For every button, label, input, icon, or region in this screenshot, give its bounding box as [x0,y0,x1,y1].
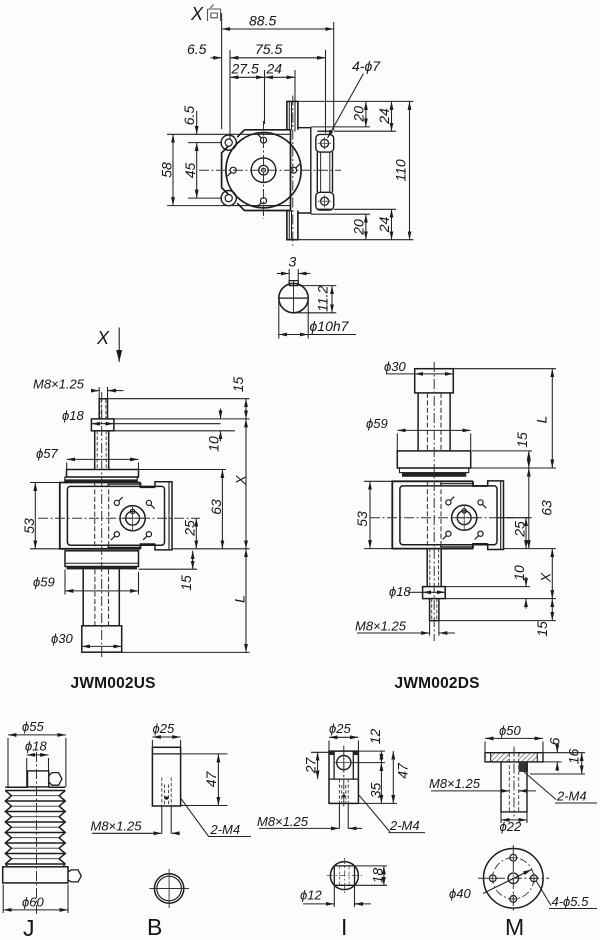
dim X [551,549,553,599]
threaded bore hidden [162,778,171,807]
dim 53 [34,483,36,549]
center hole [259,165,269,175]
gearbox body outline [60,483,155,549]
svg-text:24: 24 [376,217,392,234]
body face plate [67,486,164,545]
hub stem phi22 [501,762,527,812]
svg-text:16: 16 [566,749,582,765]
svg-text:M8×1.25: M8×1.25 [91,819,143,834]
svg-text:X: X [233,475,249,486]
dim 58 [172,134,174,205]
dim 6.5 vertical [196,111,198,134]
threaded bore hidden [339,779,348,803]
centerlines [199,96,341,246]
svg-text:25: 25 [512,521,528,538]
svg-text:24: 24 [266,61,283,77]
dim 15 top [245,399,247,419]
dim 6 [556,744,558,753]
dim phi10h7 [278,300,280,339]
dim phi25 [329,736,358,738]
dim phi60 [3,909,68,911]
svg-text:15: 15 [534,621,550,637]
dim 15 ring [528,451,530,468]
svg-text:2-M4: 2-M4 [556,789,587,804]
body face plate [400,486,497,545]
extension lines [453,368,556,370]
gearbox body outline [392,481,487,548]
dim phi12 [333,886,335,907]
US texts [21,377,249,693]
dim 3 [288,269,290,281]
svg-text:L: L [232,595,248,603]
center hole [508,873,519,884]
svg-text:88.5: 88.5 [249,13,276,29]
block phi25 [329,751,358,803]
svg-text:11.2: 11.2 [315,285,331,311]
svg-text:ϕ40: ϕ40 [449,886,471,901]
cover screws [227,134,300,207]
svg-text:110: 110 [393,159,409,182]
svg-text:27: 27 [303,757,319,775]
svg-text:6: 6 [547,737,563,745]
svg-text:M8×1.25: M8×1.25 [429,776,481,791]
base ring phi59 [65,551,139,567]
dim M8x1.25 [98,387,100,399]
svg-text:ϕ18: ϕ18 [62,408,84,423]
DS texts [354,359,555,692]
dim phi30 [386,373,415,375]
dim 27 [317,752,319,779]
svg-text:35: 35 [367,783,383,799]
flange edge lines [222,133,291,135]
dim phi18 [27,754,49,756]
svg-text:3: 3 [289,254,297,270]
end cap phi30 [82,626,122,652]
screw hidden in body [95,482,109,549]
screw below body [427,549,441,587]
dim 10 [220,409,222,419]
dim 63 [528,468,530,549]
svg-text:I: I [341,914,347,940]
dim phi50 [485,737,543,739]
svg-text:15: 15 [178,575,194,591]
svg-text:10: 10 [206,436,222,452]
bellows [5,787,65,864]
svg-text:ϕ30: ϕ30 [384,359,406,374]
gear cover circle [226,133,301,208]
dim L [551,369,553,468]
flange bolt holes [321,139,329,147]
svg-text:J: J [23,915,35,940]
svg-text:ϕ59: ϕ59 [366,416,388,431]
screw tip M8 [99,399,107,419]
svg-text:M: M [505,914,524,940]
worm shaft boss [120,506,145,531]
dim 110 [409,101,411,239]
svg-text:ϕ18: ϕ18 [389,584,411,599]
svg-text:20: 20 [351,106,367,123]
worm shaft top [287,101,298,129]
mid circle [251,158,276,183]
svg-text:24: 24 [376,108,392,125]
svg-text:X: X [190,4,204,24]
keyway slot [289,281,298,286]
svg-text:4-ϕ5.5: 4-ϕ5.5 [552,894,590,909]
dim 20 top [365,101,367,127]
svg-text:ϕ55: ϕ55 [22,719,44,734]
worm flange column [155,482,172,550]
dim M8x1.25 [161,806,163,833]
dim L [245,549,247,653]
svg-text:27.5: 27.5 [231,61,259,77]
dim 27.5 [230,76,265,78]
screw hidden in body [427,482,441,549]
dim 24 [265,76,296,78]
svg-text:ϕ10h7: ϕ10h7 [310,318,350,334]
lifting screw [95,431,109,470]
svg-text:ϕ22: ϕ22 [500,819,522,834]
collar phi18 [28,771,49,787]
corner ear top-left [221,135,236,150]
dim 20 bottom [365,214,367,240]
cylinder phi25 [152,747,180,806]
worm shaft boss [452,505,477,530]
leader 4-phi5.5 [537,882,552,906]
shaft section circle [279,283,308,312]
bolt holes 4-phi5.5 [489,854,537,902]
dim 15 tip [551,599,553,621]
dim 24 bottom [391,209,393,239]
svg-text:47: 47 [395,762,411,779]
threaded bore hidden [509,753,518,812]
key centerline [293,281,295,313]
bolt circle phi40 [493,858,534,899]
top view dimension texts [159,13,409,236]
top cap phi30 [415,369,454,393]
dim phi18 [91,423,114,425]
svg-text:53: 53 [21,518,37,534]
svg-text:45: 45 [182,163,198,179]
dim 25 [195,518,197,549]
svg-text:B: B [147,914,162,940]
flange plate phi50 section [491,753,510,762]
stop collar phi18 [91,419,114,431]
svg-text:ϕ18: ϕ18 [25,739,47,754]
svg-text:75.5: 75.5 [255,41,282,57]
top flange disc phi57 [67,470,139,478]
dim phi55 [8,734,66,736]
dim X [245,419,247,549]
corner ear bottom-left [221,191,236,206]
dim 12 [380,751,382,763]
svg-text:63: 63 [208,499,224,515]
svg-text:63: 63 [539,500,555,516]
svg-text:15: 15 [514,432,530,448]
svg-text:JWM002DS: JWM002DS [395,675,480,692]
dim phi57 [67,458,139,460]
dim 10 [525,577,527,587]
dim 18 [383,866,385,885]
extension lines right [298,100,414,102]
center axis [343,746,345,809]
bottom view flange [484,849,544,909]
dim 75.5 [230,57,326,59]
dim 15 base [192,551,194,569]
svg-text:X: X [96,328,110,348]
extension lines [108,398,250,400]
screw tip M8 [430,599,439,621]
dim M8x1.25 [338,803,340,828]
svg-text:ϕ50: ϕ50 [499,723,521,738]
center chord [279,297,308,299]
protection tube [418,393,450,451]
svg-text:2-M4: 2-M4 [389,818,420,833]
leader phi40 [483,870,532,894]
grease fitting bottom [68,870,81,882]
svg-text:2-M4: 2-M4 [210,822,241,837]
svg-text:25: 25 [182,520,198,537]
dim phi22 [500,812,502,823]
dim 53 [369,481,371,548]
bottom view rod end [330,862,358,890]
cross hole [337,756,351,770]
US dimensions [30,387,250,652]
dim M8x1.25 [431,790,501,792]
dim 24 top [391,101,393,131]
dim 63 [221,470,223,549]
cover screws [111,497,155,540]
svg-text:ϕ30: ϕ30 [51,631,73,646]
dim phi59 [397,429,470,431]
svg-text:ϕ12: ϕ12 [300,888,322,903]
cover screws [443,497,487,540]
svg-text:47: 47 [203,771,219,788]
svg-text:ϕ59: ϕ59 [33,575,55,590]
svg-text:ϕ25: ϕ25 [153,721,175,736]
svg-text:JWM002US: JWM002US [71,675,156,692]
worm flange column [488,481,504,550]
leader 2-M4 [524,772,556,800]
dim 47 [181,753,228,755]
flange lower ring [65,477,137,482]
leader 2-M4 [181,798,209,836]
svg-text:15: 15 [230,377,246,393]
DS dimensions [357,369,556,636]
svg-text:20: 20 [351,219,367,236]
grease fitting top [49,773,62,786]
protection tube [83,569,119,625]
svg-text:6.5: 6.5 [187,41,207,57]
center axis [101,392,103,659]
dim phi18 [408,591,423,593]
svg-text:12: 12 [367,729,383,745]
svg-text:X: X [538,572,554,583]
upper flange bands [400,468,469,473]
svg-text:L: L [534,416,550,424]
svg-text:10: 10 [511,565,527,581]
leader 2-M4 [359,795,390,832]
svg-text:53: 53 [354,511,370,527]
dim phi59 [65,590,139,592]
center axis [433,362,435,641]
svg-text:ϕ57: ϕ57 [36,446,58,461]
dim 11.2 [299,285,336,287]
center axis [513,747,515,817]
dim 45 [196,143,198,199]
dim 25 [525,518,527,549]
svg-text:4-ϕ7: 4-ϕ7 [352,58,381,74]
stop collar phi18 [423,587,446,599]
base ring phi60 [3,867,68,883]
svg-text:18: 18 [369,868,385,884]
tube ring phi59 [397,451,470,468]
svg-text:6.5: 6.5 [181,106,197,126]
svg-text:ϕ25: ϕ25 [329,721,351,736]
dim 88.5 [222,28,334,30]
mounting flange right [316,131,334,210]
center axis [36,752,38,914]
dim M8x1.25 [429,621,431,636]
dim 6.5 horizontal [211,57,222,59]
svg-text:M8×1.25: M8×1.25 [33,377,85,392]
leader 4-phi7 [328,74,364,139]
clevis slot [329,751,358,779]
dim 47 [392,751,394,803]
dim phi30 [82,645,122,647]
dim phi25 [152,736,180,738]
top view body outline [222,130,291,211]
dim 35 [380,763,382,804]
bottom view circle [154,874,183,903]
svg-text:ϕ60: ϕ60 [22,895,44,910]
svg-text:58: 58 [159,162,175,178]
svg-text:M8×1.25: M8×1.25 [257,814,309,829]
svg-text:M8×1.25: M8×1.25 [355,619,407,634]
dim 16 [581,753,583,774]
worm shaft bottom [287,211,298,240]
M4 set screw section [519,762,528,772]
worm housing edge [298,128,311,213]
